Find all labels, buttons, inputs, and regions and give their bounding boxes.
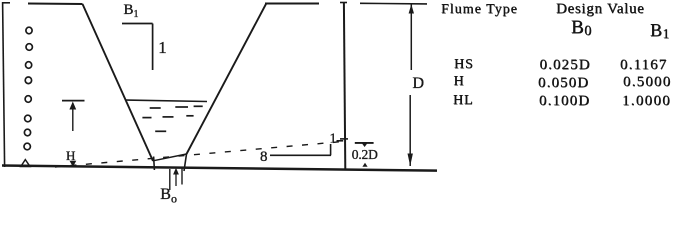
right wall of box: [344, 3, 345, 171]
sloping floor dashed line: [55, 142, 343, 168]
top edge left segment: [28, 3, 83, 6]
right wall top tick: [340, 2, 347, 4]
row HL type: [453, 94, 473, 108]
floor line: [2, 166, 437, 171]
water dash row1 c: [194, 105, 203, 107]
row H B0 value: [538, 76, 589, 91]
water dash row1 a: [150, 107, 161, 109]
0.2D top bar: [355, 142, 374, 144]
water dash row2 c: [186, 115, 193, 117]
D dimension top horizontal line: [360, 2, 427, 5]
water dash row1 b: [175, 106, 188, 108]
svg-text:D: D: [413, 75, 425, 92]
staff gauge marker 7: [24, 129, 30, 136]
D bottom arrowhead: [408, 154, 413, 167]
column header B1: [650, 21, 669, 41]
right throat vertical to floor: [184, 154, 187, 171]
row HS B0 value: [540, 58, 591, 73]
B0 extension line right: [181, 168, 183, 185]
left throat vertical to floor: [153, 157, 156, 171]
left converging wall: [83, 4, 154, 161]
staff gauge triangle marker: [21, 160, 30, 167]
water surface line: [126, 100, 207, 102]
svg-text:1: 1: [158, 38, 167, 57]
water dash row2 a: [142, 117, 151, 119]
table header Flume Type: [441, 3, 518, 17]
0.2D top arrowhead down: [362, 144, 367, 148]
H dimension arrowhead up: [69, 102, 76, 110]
row HL B1 value: [622, 94, 671, 109]
slope marker horizontal (8): [270, 154, 331, 156]
row HS B1 value: [620, 58, 667, 73]
0.2D bottom arrowhead up: [362, 163, 367, 167]
svg-text:0.2D: 0.2D: [352, 147, 378, 162]
B0 extension line left: [169, 169, 171, 190]
row HS type: [454, 58, 474, 72]
svg-text:1: 1: [330, 132, 337, 147]
B0 arrow shaft: [175, 172, 177, 186]
throat bottom sill: [153, 154, 187, 161]
svg-text:8: 8: [260, 149, 268, 165]
svg-text:H: H: [66, 148, 75, 163]
dash right of slope 1: [337, 140, 344, 142]
B1 slope bracket horizontal: [122, 23, 153, 25]
staff gauge marker 8: [24, 143, 30, 150]
water dash row3: [155, 130, 166, 132]
right converging wall: [187, 3, 267, 154]
left wall of approach box: [3, 2, 5, 167]
top-left corner tick: [3, 2, 10, 4]
D dimension line upper part: [410, 4, 412, 70]
row H B1 value: [623, 75, 671, 90]
table header Design Value: [556, 2, 645, 17]
staff gauge marker 2: [26, 44, 32, 51]
staff gauge marker 3: [26, 62, 32, 69]
staff gauge marker 4: [25, 77, 31, 84]
H dimension shaft: [72, 103, 74, 131]
B1 slope bracket vertical: [152, 24, 154, 71]
B0 arrowhead up: [173, 168, 179, 175]
staff gauge marker 6: [25, 115, 31, 122]
svg-text:Bo: Bo: [160, 186, 177, 205]
D dimension line lower part: [409, 95, 411, 166]
D top arrowhead: [409, 4, 414, 13]
svg-text:B1: B1: [124, 2, 139, 20]
row HL B0 value: [539, 94, 590, 109]
0.2D level tick at wall: [340, 138, 348, 140]
row H type: [454, 75, 465, 89]
slope marker vertical riser: [330, 144, 332, 155]
H dimension top bar: [62, 100, 85, 102]
staff gauge marker 1: [26, 27, 32, 34]
staff gauge marker 5: [25, 96, 31, 103]
H bottom arrowhead down: [70, 161, 77, 167]
water dash row2 b: [163, 116, 174, 118]
column header B0: [571, 18, 591, 39]
top edge right segment: [265, 3, 319, 5]
